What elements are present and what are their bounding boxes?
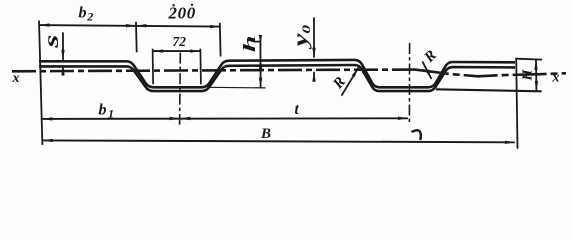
- svg-text:x: x: [552, 71, 560, 86]
- svg-text:s: s: [41, 35, 63, 49]
- sheet profile (double line): [39, 60, 515, 91]
- svg-text:200: 200: [168, 4, 196, 23]
- radius R1 leader: [342, 68, 359, 96]
- wire extension right B: [516, 58, 517, 149]
- dimension h: [254, 41, 261, 43]
- svg-text:x: x: [12, 71, 20, 86]
- node trough1 centerline: [179, 53, 182, 125]
- node trough2 centerline: [408, 43, 410, 124]
- svg-text:t: t: [295, 101, 300, 118]
- svg-text:B: B: [260, 126, 271, 142]
- wire trough1 bottom reference: [208, 86, 266, 89]
- hook mark: [413, 130, 421, 139]
- dimension 72: [152, 49, 155, 85]
- dimension b1/t line: [42, 117, 408, 120]
- wire extension mid-top: [135, 22, 138, 53]
- svg-text:72: 72: [173, 34, 187, 49]
- svg-text:h: h: [241, 35, 260, 52]
- dimension y0: [313, 17, 315, 57]
- radius R2 leader: [422, 61, 431, 79]
- dimension s: [62, 32, 64, 60]
- dimension H: [516, 58, 542, 61]
- wire extension left: [39, 21, 42, 145]
- wire extension right-top: [219, 23, 222, 57]
- dimension b2/200 line: [39, 25, 220, 27]
- dimension B line: [43, 140, 515, 142]
- svg-text:H: H: [521, 69, 536, 82]
- axis x-x (chain line): [12, 70, 415, 72]
